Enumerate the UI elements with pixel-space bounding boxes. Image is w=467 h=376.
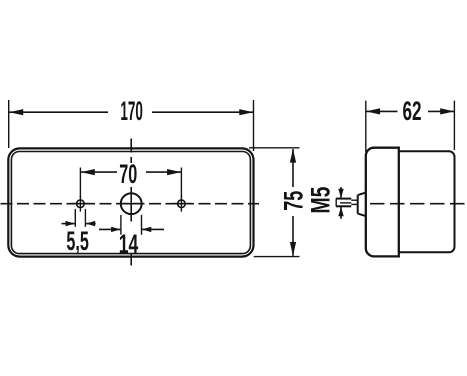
dimension 70 extension line left bbox=[79, 168, 81, 198]
dimension 75 line top segment bbox=[292, 149, 294, 187]
dimension 70 arrow right bbox=[167, 169, 181, 175]
dimension 70 line right segment bbox=[146, 171, 181, 173]
dimension M5 lower arrow bbox=[338, 207, 343, 217]
dimension 62 arrow left bbox=[366, 108, 380, 114]
dimension 170 line right segment bbox=[152, 111, 253, 113]
dimension M5 upper arrow line bbox=[340, 187, 342, 198]
left hole vertical tick bbox=[79, 196, 81, 212]
svg-text:70: 70 bbox=[119, 159, 137, 189]
stud rod top edge bbox=[336, 198, 351, 200]
dimension 62 extension line left bbox=[365, 101, 367, 152]
centerline solid across left hole bbox=[71, 203, 90, 205]
dimension 75 arrow top bbox=[290, 149, 296, 163]
dimension 62 arrow right bbox=[440, 108, 454, 114]
front view inner outline bbox=[11, 152, 250, 254]
svg-text:75: 75 bbox=[279, 191, 309, 211]
dimension 14 leader left bbox=[99, 228, 120, 230]
dimension 62 line right segment bbox=[428, 110, 454, 112]
side view body outline bbox=[399, 151, 455, 252]
dimension 14 arrow left bbox=[111, 227, 121, 232]
dimension 62 extension line right bbox=[453, 101, 455, 150]
dimension M5 lower arrow line bbox=[340, 207, 342, 219]
dimension 5,5 extension line right bbox=[84, 209, 86, 227]
stud boss left face bbox=[357, 195, 359, 214]
stud rod middle line bbox=[340, 202, 351, 204]
dimension 75 line bottom segment bbox=[292, 216, 294, 256]
svg-text:170: 170 bbox=[120, 96, 143, 126]
thread runout bottom bbox=[351, 203, 357, 205]
svg-text:M5: M5 bbox=[305, 187, 335, 214]
left mounting hole 5.5mm bbox=[77, 200, 85, 208]
dimension 14 arrow right bbox=[142, 227, 152, 232]
right mounting hole 5.5mm bbox=[178, 200, 186, 208]
front view vertical centerline lower bbox=[130, 253, 132, 266]
front view outer outline bbox=[8, 148, 253, 256]
front view vertical centerline through circle bbox=[130, 187, 132, 222]
svg-text:5,5: 5,5 bbox=[66, 226, 89, 256]
dimension M5 upper arrow bbox=[338, 189, 343, 199]
dimension 5,5 arrow right bbox=[86, 221, 96, 226]
front view horizontal centerline bbox=[1, 203, 260, 205]
stud rod bottom edge bbox=[336, 205, 351, 207]
dimension 14 extension line left bbox=[120, 215, 122, 235]
stud boss top edge bbox=[358, 193, 366, 196]
dimension 5,5 arrow left bbox=[66, 221, 76, 226]
dimension 170 arrow left bbox=[9, 109, 23, 115]
dimension 62 line left segment bbox=[366, 110, 397, 112]
svg-text:14: 14 bbox=[119, 229, 139, 259]
dimension 5,5 leader right bbox=[86, 223, 96, 225]
right hole vertical tick bbox=[180, 196, 182, 212]
dimension 14 leader right bbox=[142, 228, 164, 230]
side view centerline bbox=[370, 203, 466, 205]
centerline solid across middle circle bbox=[119, 203, 144, 205]
centerline solid across right hole bbox=[172, 203, 191, 205]
side view lens outline bbox=[366, 148, 399, 257]
dimension 5,5 extension line left bbox=[74, 209, 76, 227]
stud rod tip bbox=[335, 199, 337, 207]
center hole 14mm bbox=[121, 193, 142, 214]
dimension 170 arrow right bbox=[239, 109, 253, 115]
thread runout top bbox=[351, 199, 357, 201]
front view vertical centerline upper bbox=[130, 139, 132, 164]
svg-text:62: 62 bbox=[403, 96, 422, 126]
dimension 70 extension line right bbox=[180, 168, 182, 198]
dimension 70 arrow left bbox=[81, 169, 95, 175]
dimension 170 extension line right bbox=[253, 100, 255, 151]
dimension 75 arrow bottom bbox=[290, 242, 296, 256]
dimension 5,5 leader left bbox=[62, 223, 75, 225]
stud boss bottom edge bbox=[358, 214, 366, 217]
dimension 170 line left segment bbox=[9, 111, 108, 113]
dimension 75 extension line bottom bbox=[254, 256, 300, 258]
dimension 170 extension line left bbox=[8, 100, 10, 148]
dimension 75 extension line top bbox=[249, 147, 300, 149]
dimension 70 line left segment bbox=[81, 171, 117, 173]
dimension 14 extension line right bbox=[141, 215, 143, 235]
